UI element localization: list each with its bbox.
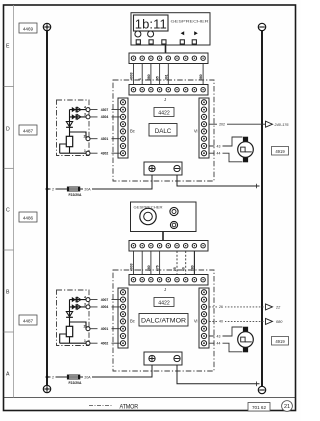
unit1 plus feed wire from bottom connector — [47, 175, 152, 189]
label box 4422 — [154, 108, 174, 117]
notch wire — [60, 144, 67, 153]
bottom wire to pin 1 — [60, 342, 87, 344]
svg-text:4486: 4486 — [23, 216, 34, 221]
junction dot on plus bus — [46, 188, 49, 191]
svg-text:22: 22 — [275, 306, 281, 310]
diode D2 — [72, 114, 81, 119]
wire 43 Vi pin7 to motor top — [209, 137, 242, 146]
motor M1 — [238, 137, 254, 163]
fuse F22 lower — [67, 375, 80, 379]
svg-text:1: 1 — [84, 339, 86, 343]
wire 380b strip to J — [202, 64, 204, 85]
svg-text:DALC/ATMOR: DALC/ATMOR — [141, 318, 187, 325]
plus supply symbol bottom left — [43, 385, 50, 392]
wire 4001 to Bc2 pin6 — [90, 328, 121, 330]
wire label 4001 — [98, 327, 112, 332]
wire 4301 to Bc pin6 — [90, 138, 121, 140]
svg-text:J: J — [164, 287, 166, 292]
unit2 minus return wire to right bus — [177, 365, 260, 384]
clock square button 1 — [136, 40, 140, 44]
svg-text:E: E — [6, 44, 10, 50]
component ref box 4487 (row D) — [19, 125, 37, 135]
fuse feed label 2 — [51, 187, 56, 192]
clock left arrow button — [181, 31, 185, 35]
svg-text:1: 1 — [84, 149, 86, 153]
motor M2 — [238, 327, 254, 353]
wire label 43 — [215, 334, 223, 339]
svg-text:301: 301 — [164, 74, 168, 80]
svg-text:D: D — [6, 127, 10, 133]
svg-text:B: B — [6, 290, 10, 296]
svg-text:44: 44 — [217, 342, 221, 346]
pin 3 terminal — [86, 115, 90, 119]
svg-text:Vi: Vi — [194, 129, 198, 134]
page number circle 21 — [282, 401, 293, 412]
clock right arrow button — [194, 31, 198, 35]
zener diode — [66, 122, 73, 128]
drawing number box 701 62 — [248, 403, 270, 412]
connector Bc of unit 1 — [118, 98, 128, 158]
wire label 4301 — [98, 137, 112, 142]
diode resistor box (clock side) dashed boundary — [57, 100, 90, 156]
svg-text:080: 080 — [276, 320, 283, 324]
wire 4003 strip to J — [133, 64, 135, 85]
svg-text:4422: 4422 — [158, 111, 170, 117]
svg-text:4422: 4422 — [158, 301, 170, 307]
pin 4 terminal — [86, 108, 90, 112]
wire stem control unit to strip — [162, 232, 164, 241]
diode box internal bus wire — [69, 110, 71, 137]
margin tick 2 — [4, 167, 14, 169]
minus return end tick — [256, 184, 258, 189]
component ref box 4487 (row B) — [19, 315, 37, 325]
arrow to 240-176 — [266, 121, 273, 127]
pin 1 terminal — [86, 151, 90, 155]
clock square button 3 — [162, 40, 166, 44]
svg-text:21: 21 — [284, 404, 290, 410]
pin 1 terminal — [86, 341, 90, 345]
footer separator line — [4, 397, 296, 399]
svg-text:ATMOR: ATMOR — [119, 404, 138, 410]
junction dot on plus bus lower — [46, 376, 49, 379]
svg-text:4001: 4001 — [101, 327, 109, 331]
fuse F22 upper — [67, 187, 80, 191]
clock square button 2 — [149, 40, 153, 44]
svg-text:4004: 4004 — [101, 305, 109, 309]
svg-text:F22/20A: F22/20A — [68, 193, 82, 197]
component ref box 4919 lower — [272, 337, 289, 346]
control big knob outer — [140, 208, 156, 224]
clock display window — [134, 15, 169, 31]
svg-text:380: 380 — [199, 74, 203, 80]
bottom supply connector of unit 1 — [144, 162, 182, 175]
wire 44 Vi pin8 to motor bottom — [209, 153, 242, 162]
unit1 supply pin plus — [149, 165, 155, 171]
minus return end tick lower — [256, 382, 258, 387]
wire 43 Vi2 pin7 to motor top — [209, 327, 242, 336]
svg-text:2: 2 — [84, 324, 86, 328]
fuse wire label 20A — [83, 375, 92, 380]
wire 4307 to Bc pin2 — [90, 109, 121, 111]
svg-text:C: C — [6, 208, 10, 214]
component ref box 4486 (row C) — [19, 212, 37, 222]
connector Vi of unit 1 — [199, 98, 209, 158]
svg-text:4007: 4007 — [101, 298, 109, 302]
minus supply symbol bottom right — [258, 386, 265, 393]
svg-text:4919: 4919 — [275, 149, 285, 154]
diode D4 — [72, 304, 81, 309]
svg-text:20A: 20A — [84, 187, 91, 191]
svg-text:GESPRECHER: GESPRECHER — [171, 20, 210, 24]
control small button lower inner — [172, 223, 176, 227]
clock button circle 1 — [135, 31, 141, 37]
unit1 minus return wire to right bus — [177, 175, 260, 186]
label box 4422 — [154, 298, 174, 307]
wire label 44 — [215, 151, 223, 156]
wire label 43 — [215, 144, 223, 149]
pin 4 terminal — [86, 298, 90, 302]
J connector strip of unit 4422 — [129, 85, 208, 96]
svg-text:4469: 4469 — [23, 27, 34, 32]
J connector strip of unit 2 — [129, 275, 208, 286]
wire 476 mid strip to J2 — [159, 251, 161, 275]
wire 280b mid strip to J2 — [193, 251, 195, 275]
wire label 4307 — [98, 107, 112, 112]
svg-text:40: 40 — [219, 320, 223, 324]
svg-text:Vi: Vi — [194, 319, 198, 324]
svg-text:1b:11: 1b:11 — [135, 17, 167, 32]
component ref box 4919 upper — [272, 147, 289, 156]
wire label 4304 — [98, 115, 112, 120]
wire label 4007 — [98, 297, 112, 302]
margin tick 4 — [4, 331, 14, 333]
arrow to 22 — [266, 304, 273, 310]
svg-text:Bc: Bc — [130, 319, 135, 324]
left plus bus wire — [46, 31, 48, 386]
right minus bus wire — [261, 31, 263, 387]
diode resistor box (atmor side) dashed boundary — [57, 290, 90, 346]
svg-text:4304: 4304 — [101, 115, 109, 119]
connector strip of clock unit — [129, 53, 208, 64]
wire label 4004 — [98, 305, 112, 310]
plus supply symbol top left — [43, 23, 50, 30]
wire 4004 to Bc2 pin3 — [90, 306, 121, 308]
minus supply symbol top right — [258, 23, 265, 30]
resistor bottom stub — [69, 147, 71, 154]
bottom supply connector of unit 2 — [144, 352, 182, 365]
wire label 26 — [217, 305, 225, 310]
connector Vi of unit 2 — [199, 288, 209, 348]
fuse wire label 20A — [83, 187, 92, 192]
resistor 2 — [66, 326, 72, 336]
clock square button 4 — [180, 40, 184, 44]
pin 2 terminal — [86, 327, 90, 331]
wire 4003 mid strip to J2 — [133, 251, 135, 275]
arrow to 080 — [266, 318, 273, 324]
wire label 44 — [215, 341, 223, 346]
unit2 plus feed wire from bottom connector — [47, 365, 152, 377]
wire 1 mid strip to J2 — [141, 251, 143, 275]
svg-text:20A: 20A — [84, 375, 91, 379]
svg-text:4487: 4487 — [23, 319, 34, 324]
wire 301 strip to J — [167, 64, 169, 85]
svg-text:202: 202 — [219, 122, 225, 126]
svg-text:F22/20A: F22/20A — [68, 381, 82, 385]
svg-text:Bc: Bc — [130, 129, 135, 134]
legend dash-dot sample — [89, 405, 112, 407]
wire 4002 to Bc2 pin8 — [90, 342, 121, 344]
svg-text:701 62: 701 62 — [252, 405, 266, 410]
microphone control unit 4486 body — [131, 202, 197, 232]
branch wire to pin 2 — [70, 322, 87, 329]
wire 4304 to Bc pin3 — [90, 116, 121, 118]
svg-text:3: 3 — [84, 303, 86, 307]
wire to pin 4 — [70, 299, 87, 301]
dashed wire 40 from Vi2 pin5 — [209, 320, 265, 322]
connector Bc of unit 2 — [118, 288, 128, 348]
wire 380a strip to J — [150, 64, 152, 85]
component ref box 4469 — [19, 23, 37, 33]
control big knob inner — [144, 212, 153, 221]
resistor bottom stub — [69, 337, 71, 344]
wire label 4002 — [98, 341, 112, 346]
clock square button 5 — [192, 40, 196, 44]
wire label 40 — [217, 319, 225, 324]
margin tick 3 — [4, 249, 14, 251]
svg-text:4301: 4301 — [101, 137, 109, 141]
svg-text:4003: 4003 — [130, 72, 134, 80]
dashed wire 26 from Vi2 pin3 — [209, 306, 265, 308]
svg-text:3: 3 — [84, 113, 86, 117]
notch wire — [60, 334, 67, 343]
svg-text:4: 4 — [84, 105, 86, 109]
wire 4302 to Bc pin8 — [90, 152, 121, 154]
diode D3 — [72, 297, 81, 302]
svg-text:4: 4 — [84, 295, 86, 299]
svg-text:4919: 4919 — [275, 339, 285, 344]
svg-text:4307: 4307 — [101, 108, 109, 112]
svg-text:4002: 4002 — [101, 342, 109, 346]
resistor — [66, 136, 72, 146]
wire stem clock to connector strip — [165, 45, 167, 53]
svg-text:44: 44 — [217, 152, 221, 156]
pin 3 terminal — [86, 305, 90, 309]
unit 4422 DALC dashed boundary — [113, 80, 214, 181]
margin band inner line — [13, 5, 15, 398]
unit1 supply pin minus — [174, 165, 180, 171]
svg-text:380: 380 — [147, 74, 151, 80]
wire 1 strip to J — [141, 64, 143, 85]
dashed wire 25 mid strip to J2 — [176, 251, 178, 275]
wire to pin 4 — [70, 109, 87, 111]
branch wire to pin 2 — [70, 132, 87, 139]
wire to pin 3 — [70, 116, 87, 118]
wire 202 from Vi pin4 to arrow — [209, 123, 265, 125]
dashed wire 40 mid strip to J2 — [185, 251, 187, 275]
control small button upper outer — [170, 207, 178, 215]
svg-text:A: A — [6, 372, 10, 378]
svg-text:43: 43 — [217, 334, 221, 338]
wire 45 strip to J — [159, 64, 161, 85]
unit2 supply pin plus — [149, 355, 155, 361]
svg-text:DALC: DALC — [155, 128, 172, 135]
diode D1 — [72, 107, 81, 112]
control small button upper inner — [172, 210, 176, 214]
wire label 202 — [217, 122, 227, 127]
svg-text:4487: 4487 — [23, 129, 34, 134]
clock button circle 2 — [148, 31, 154, 37]
pin 2 terminal — [86, 137, 90, 141]
clock display unit 4469 body — [131, 13, 210, 45]
svg-text:4302: 4302 — [101, 152, 109, 156]
zener diode 2 — [66, 312, 73, 318]
wire label 4302 — [98, 151, 112, 156]
control small button lower outer — [170, 221, 177, 228]
wire to pin 3 — [70, 306, 87, 308]
margin tick 1 — [4, 86, 14, 88]
wire 280a mid strip to J2 — [150, 251, 152, 275]
svg-text:J: J — [164, 97, 166, 102]
diode box2 internal bus wire — [69, 300, 71, 327]
svg-text:2: 2 — [52, 375, 54, 379]
svg-text:240-176: 240-176 — [274, 123, 290, 127]
unit 4422 DALC/ATMOR dashed boundary — [113, 270, 214, 371]
wire 44 Vi2 pin8 to motor bottom — [209, 343, 242, 352]
svg-text:2: 2 — [84, 134, 86, 138]
connector strip of control unit — [129, 241, 208, 252]
wire 4007 to Bc2 pin2 — [90, 299, 121, 301]
label box DALC/ATMOR — [139, 314, 188, 327]
svg-text:43: 43 — [217, 144, 221, 148]
svg-text:2: 2 — [52, 187, 54, 191]
label box DALC — [149, 124, 177, 137]
bottom wire to pin 1 — [60, 152, 87, 154]
svg-text:45: 45 — [156, 76, 160, 80]
unit2 supply pin minus — [174, 355, 180, 361]
fuse feed label 2 — [51, 375, 56, 380]
svg-text:26: 26 — [219, 305, 223, 309]
